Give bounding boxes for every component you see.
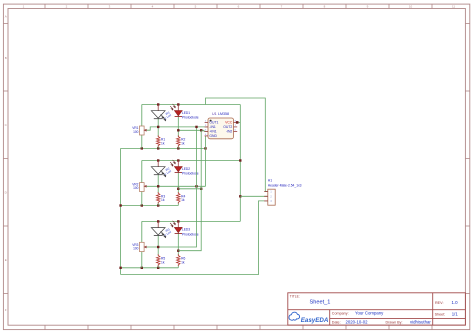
- svg-text:Sheet_1: Sheet_1: [310, 299, 331, 305]
- svg-text:OUT1: OUT1: [209, 121, 218, 125]
- svg-text:10: 10: [409, 5, 413, 9]
- svg-text:F: F: [5, 308, 7, 312]
- photodiode LED3: [170, 221, 199, 237]
- op-amp U1 LM358: [208, 112, 234, 139]
- svg-text:Company:: Company:: [332, 312, 349, 316]
- svg-text:1.0: 1.0: [452, 300, 459, 305]
- title block: [288, 293, 466, 325]
- svg-text:-IN2: -IN2: [226, 130, 233, 134]
- wire channel 2 bottom: [121, 202, 179, 205]
- wire VR2 wiper across to vertical drop: [147, 185, 206, 187]
- op-amp left pins 1 2 3 4: [205, 121, 208, 137]
- led IR3 Ir Led: [151, 227, 172, 238]
- title block texts: [290, 294, 459, 324]
- resistor R1 1k: [157, 135, 166, 146]
- svg-text:100: 100: [133, 247, 139, 251]
- photodiode LED2: [170, 160, 199, 176]
- wire LED3/R6 junction to drop D2: [178, 130, 201, 250]
- svg-text:1k: 1k: [181, 142, 185, 146]
- wire channel 1 bottom: [121, 147, 206, 149]
- svg-text:-IN1: -IN1: [209, 125, 216, 129]
- wire VR3 wiper to IR3 junction (from drop D1): [147, 127, 197, 247]
- svg-text:Header-Male-2.54_1x3: Header-Male-2.54_1x3: [268, 184, 302, 188]
- wire VR1 wiper to IR1/R1 junction to op-amp -IN1: [147, 127, 209, 130]
- wire LED2 column: [177, 161, 179, 194]
- EasyEDA logo: [289, 312, 329, 324]
- wire IR led 3 column: [157, 221, 159, 267]
- wire channel 3 bottom: [121, 265, 179, 268]
- svg-text:A: A: [5, 15, 7, 19]
- svg-text:TITLE:: TITLE:: [290, 294, 300, 298]
- node dots channel 2 signal wires: [157, 185, 202, 190]
- led IR1 Ir Led: [151, 110, 172, 121]
- svg-text:Date:: Date:: [332, 320, 341, 324]
- resistor R6 1k: [177, 254, 186, 266]
- resistor R4 1k: [177, 192, 186, 203]
- photodiode LED1: [170, 104, 199, 120]
- wire VCC top loop to header pin 1: [206, 98, 268, 192]
- wire LED3 column: [177, 221, 179, 255]
- op-amp right pins 8 7 6 5: [234, 121, 238, 132]
- wire IR led 2 column: [157, 161, 159, 206]
- node left rail junction dots: [119, 204, 121, 269]
- svg-text:1k: 1k: [181, 198, 185, 202]
- wire VR3 bottom pin: [141, 252, 143, 268]
- svg-text:OUT2: OUT2: [223, 125, 232, 129]
- wire channel 2 top rail: [142, 160, 241, 162]
- wire op-amp GND drop to ch1 bottom and ch2 wiper rail: [205, 136, 207, 186]
- svg-text:1k: 1k: [181, 260, 185, 264]
- svg-text:1k: 1k: [161, 260, 165, 264]
- wire channel 1 top rail: [142, 104, 241, 106]
- svg-text:Drawn By:: Drawn By:: [386, 320, 403, 324]
- potentiometer VR3 100: [132, 242, 146, 251]
- resistor R2 1k: [177, 135, 186, 146]
- connector H1 Header-Male-2.54_1x3: [264, 178, 301, 205]
- wire LED2/R4 junction to drop D2: [178, 188, 201, 190]
- wire VCC pin to right rail: [237, 121, 240, 123]
- node right rail dots: [239, 159, 241, 197]
- led IR2 Ir Led: [151, 166, 172, 177]
- wire header pin 2 to right rail: [240, 195, 267, 197]
- wire VR1 bottom pin: [141, 135, 143, 148]
- node junction dots channel 2: [141, 159, 180, 206]
- svg-text:1k: 1k: [161, 142, 165, 146]
- svg-text:vidhisuthar: vidhisuthar: [410, 320, 431, 325]
- svg-text:2020-10-02: 2020-10-02: [346, 320, 369, 325]
- svg-text:100: 100: [133, 186, 139, 190]
- svg-text:1k: 1k: [161, 198, 165, 202]
- node IR1 junction dot: [157, 126, 159, 128]
- resistor R3 1k: [157, 192, 166, 203]
- wire IR led 1 column: [157, 105, 159, 149]
- node VCC junction dot: [236, 121, 239, 124]
- svg-text:Your Company: Your Company: [355, 311, 384, 316]
- wire left vertical rail: [120, 148, 122, 274]
- wire right rail (channel rails bus): [239, 105, 241, 222]
- svg-text:E: E: [5, 258, 7, 262]
- svg-text:+IN1: +IN1: [209, 130, 216, 134]
- svg-text:B: B: [5, 56, 7, 60]
- potentiometer VR1 100: [132, 126, 146, 135]
- svg-text:LED3: LED3: [182, 228, 190, 232]
- svg-text:LM358: LM358: [218, 112, 229, 116]
- wire channel 3 top rail: [142, 220, 241, 222]
- wire LED1 column: [177, 105, 179, 149]
- node LED1 junction dot: [177, 129, 179, 131]
- resistor R5 1k: [157, 254, 166, 266]
- svg-text:VCC: VCC: [225, 121, 233, 125]
- svg-text:LED1: LED1: [182, 111, 190, 115]
- wire VR2 top pin: [141, 161, 143, 183]
- svg-text:Sheet:: Sheet:: [435, 313, 446, 317]
- svg-text:Photodiode: Photodiode: [182, 115, 199, 119]
- wire LED1/R2 junction to op-amp +IN1: [178, 130, 208, 131]
- node junction dots channel 1: [141, 103, 207, 149]
- svg-text:1/1: 1/1: [452, 312, 459, 317]
- potentiometer VR2 100: [132, 182, 146, 191]
- wire VR3 top pin: [141, 221, 143, 242]
- svg-text:GND: GND: [209, 134, 217, 138]
- node dots channel 3: [157, 126, 202, 252]
- svg-text:100: 100: [133, 130, 139, 134]
- svg-text:H1: H1: [268, 178, 272, 182]
- wire VR1 top pin: [141, 105, 143, 127]
- node junction dots channel 3: [141, 220, 180, 269]
- svg-text:REV:: REV:: [435, 301, 443, 305]
- wire VR2 bottom pin: [141, 192, 143, 206]
- svg-text:11: 11: [452, 5, 455, 9]
- svg-text:EasyEDA: EasyEDA: [301, 317, 329, 324]
- svg-text:LED2: LED2: [182, 167, 190, 171]
- svg-text:U1: U1: [212, 112, 217, 116]
- wire header pin 3 to bottom return bus: [121, 201, 268, 275]
